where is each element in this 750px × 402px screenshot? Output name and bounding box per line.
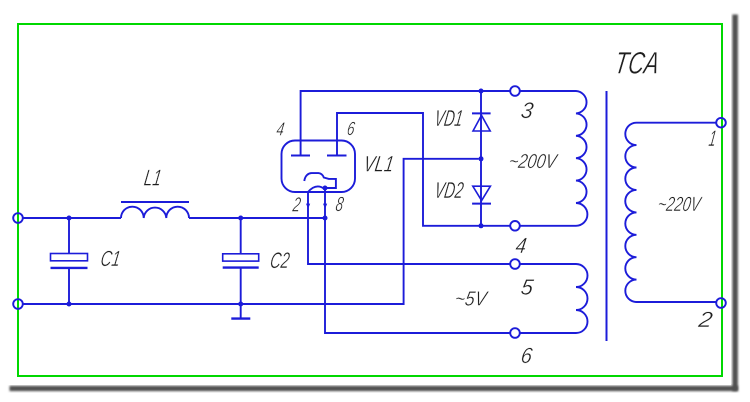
junction diode bottom <box>479 223 484 228</box>
svg-text:~5V: ~5V <box>453 287 490 310</box>
tube VL1 envelope <box>282 141 356 193</box>
svg-text:VL1: VL1 <box>362 152 396 177</box>
tube heater filament <box>308 186 324 192</box>
wire top rail from L1 to tube pin 8 junction <box>189 217 325 219</box>
terminal 3 <box>510 86 520 96</box>
terminal left bottom <box>13 299 23 309</box>
wire anode pin 6 to terminal 4 <box>337 113 510 226</box>
svg-text:VD1: VD1 <box>433 105 465 131</box>
label L1 <box>142 165 163 191</box>
wire bottom rail from left terminal, up to diode midpoint <box>23 159 479 304</box>
inductor L1 core bar <box>121 201 189 203</box>
terminal 6 <box>510 328 520 338</box>
junction C2 top <box>238 216 243 221</box>
pin 2 lead arrow <box>306 204 310 209</box>
junction diode middle <box>479 156 484 161</box>
label ~220V <box>656 193 704 216</box>
terminal 1 <box>716 118 726 128</box>
tube anode plate pin 4 <box>291 155 310 157</box>
label VL1 <box>362 152 396 177</box>
transformer winding 200V <box>520 91 587 226</box>
capacitor C1 <box>51 218 88 304</box>
wire tube pin 2 to terminal 5 <box>308 192 510 264</box>
svg-text:VD2: VD2 <box>433 177 466 203</box>
terminal 4 <box>510 221 520 231</box>
label C2 <box>269 248 292 273</box>
label VD2 <box>433 177 466 203</box>
junction C2 bottom <box>238 302 243 307</box>
terminal left top <box>13 213 23 223</box>
transformer winding 220V primary <box>625 123 716 302</box>
terminal 5 <box>510 259 520 269</box>
pin 8 lead arrow <box>323 204 327 209</box>
terminal label 6 <box>519 343 535 368</box>
terminal label 2 <box>696 307 715 332</box>
terminal 2 <box>716 298 726 308</box>
diode VD1 <box>472 113 491 131</box>
pin label 8 <box>334 193 345 216</box>
transformer winding 5V <box>520 264 588 333</box>
junction C1 bottom <box>67 302 72 307</box>
diode VD2 <box>472 186 491 203</box>
terminal label 3 <box>519 98 535 123</box>
svg-text:~200V: ~200V <box>507 151 560 173</box>
label C1 <box>99 246 122 271</box>
label ~5V <box>453 287 490 310</box>
label VD1 <box>433 105 465 131</box>
pin label 6 <box>346 119 357 140</box>
pin label 2 <box>291 193 303 216</box>
label ~200V <box>507 151 560 173</box>
diode branch vertical wire <box>480 91 482 226</box>
junction cathode pin8 <box>323 186 328 191</box>
ground chassis bar under C2 <box>231 317 250 319</box>
svg-text:~220V: ~220V <box>656 193 704 216</box>
terminal label 1 <box>707 126 718 151</box>
terminal label 5 <box>519 275 536 300</box>
shadow right edge <box>732 15 738 392</box>
junction pin8 top rail <box>323 216 328 221</box>
wire anode pin 4 to terminal 3 <box>301 91 510 156</box>
terminal label 4 <box>514 233 528 258</box>
svg-text:C1: C1 <box>99 246 122 271</box>
svg-text:TCA: TCA <box>612 46 662 81</box>
tube cathode <box>304 173 336 188</box>
capacitor C2 <box>223 218 259 318</box>
pin label 4 <box>275 120 286 141</box>
label TCA <box>612 46 662 81</box>
junction diode top <box>479 89 484 94</box>
tube anode plate pin 6 <box>327 155 347 157</box>
transformer core <box>606 91 608 341</box>
wire tube pin 8 to terminal 6 <box>325 188 510 333</box>
junction C1 top <box>67 216 72 221</box>
inductor L1 humps <box>121 207 189 218</box>
shadow bottom edge <box>10 386 738 391</box>
wire top rail from left input terminal to L1 <box>23 217 121 219</box>
